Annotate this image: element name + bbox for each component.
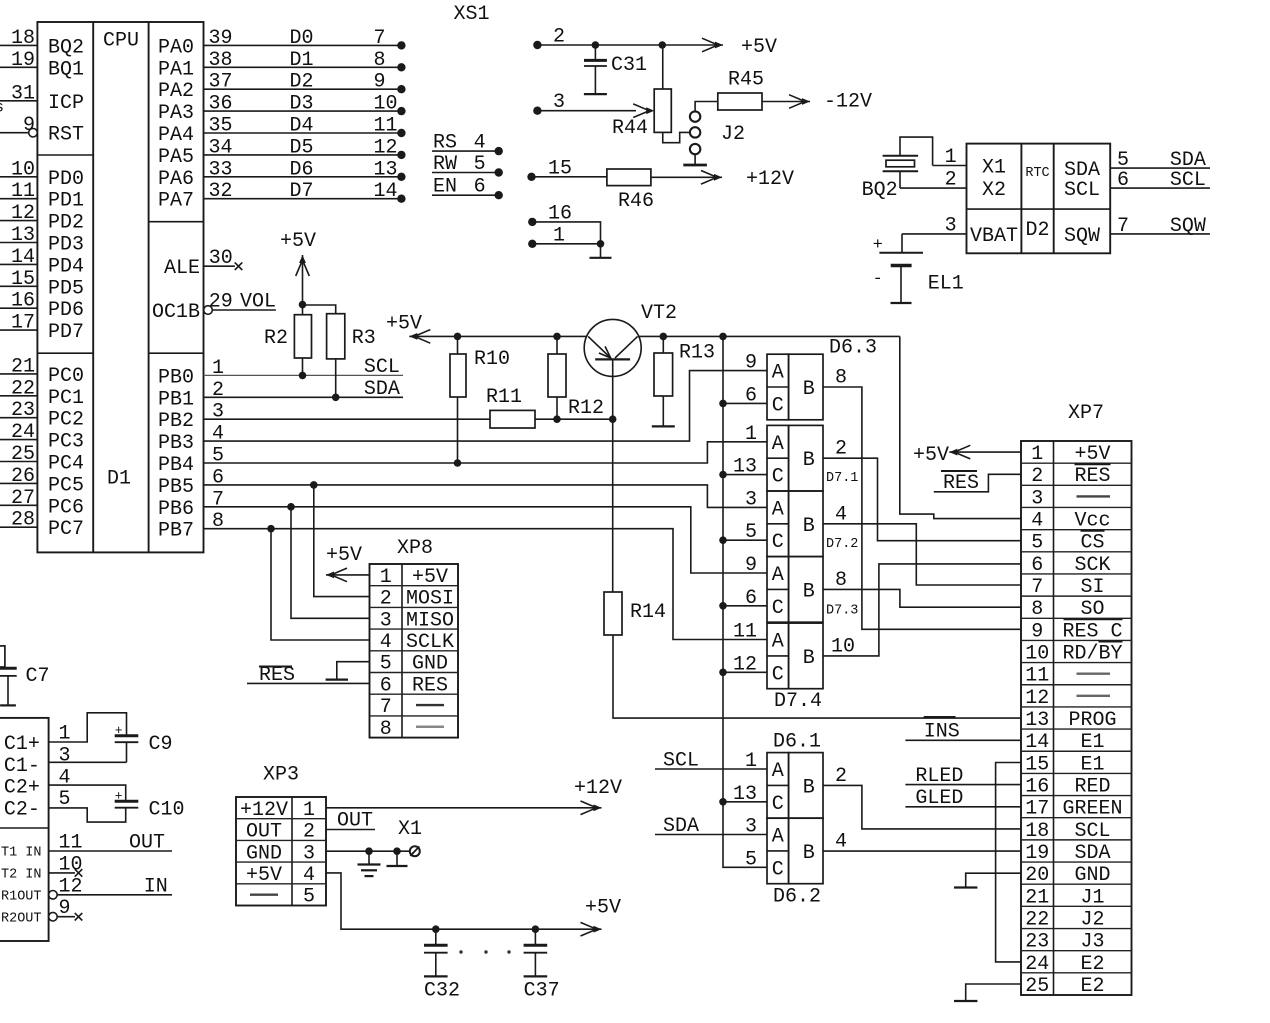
svg-text:PA1: PA1 [158, 58, 194, 81]
svg-text:13: 13 [374, 158, 398, 181]
svg-text:SCL: SCL [1074, 820, 1110, 843]
svg-text:B: B [803, 378, 815, 401]
svg-text:C1+: C1+ [4, 733, 40, 756]
CPU pin 31 ICP wire [0, 100, 37, 102]
svg-text:2: 2 [303, 821, 315, 844]
svg-text:C: C [772, 663, 784, 686]
svg-text:11: 11 [374, 115, 398, 138]
wire XP7 pin15 to pin24 strap [996, 763, 1021, 962]
svg-text:11: 11 [733, 621, 757, 644]
svg-text:6: 6 [380, 674, 392, 697]
svg-text:C: C [772, 466, 784, 489]
svg-text:R2OUT: R2OUT [1, 911, 42, 926]
svg-text:T1 IN: T1 IN [1, 846, 42, 861]
ground J2 bottom [694, 154, 696, 165]
D7.3 pin 8 output to XP7 SO [823, 589, 1021, 607]
svg-text:SCK: SCK [1074, 554, 1110, 577]
wire XP8 pin6 RES [247, 682, 370, 684]
svg-text:PD7: PD7 [48, 321, 84, 344]
ellipsis more capacitors [459, 950, 462, 953]
svg-text:3: 3 [1031, 487, 1043, 510]
svg-text:+5V: +5V [913, 444, 949, 467]
XS1 pin 6 EN wire [432, 194, 499, 196]
D7.4 pin 10 output to XP7 SCK [823, 564, 1021, 656]
svg-text:8: 8 [1031, 598, 1043, 621]
D6.1 pin 2 output to XP7 SCL [823, 785, 1021, 829]
resistor R46 [607, 169, 651, 186]
svg-text:SO: SO [1080, 598, 1104, 621]
svg-text:+: + [115, 723, 123, 738]
svg-text:1: 1 [1031, 443, 1043, 466]
svg-text:2: 2 [835, 438, 847, 461]
svg-text:PA2: PA2 [158, 80, 194, 103]
junction XP8 SCLK on PB7 [267, 525, 275, 533]
CPU pin 24 PC3 wire [0, 439, 37, 441]
svg-text:+5V: +5V [585, 897, 621, 920]
D7.2 pin 4 output to XP7 SI [823, 524, 1021, 585]
wire XP8 pin4 SCLK to PB7 [271, 529, 370, 640]
XP3 dash row5 [250, 893, 278, 895]
svg-text:s: s [0, 99, 4, 117]
junction C-bus top [719, 333, 727, 341]
junction R44 on +5V [659, 41, 667, 49]
svg-text:27: 27 [11, 487, 35, 510]
svg-text:16: 16 [548, 202, 572, 225]
CPU microcontroller D1 body [37, 22, 203, 552]
capacitor C10 [115, 800, 139, 803]
CPU pin 25 PC4 wire [0, 461, 37, 463]
svg-text:13: 13 [733, 783, 757, 806]
svg-text:35: 35 [209, 115, 233, 138]
XS1 pin 16 wire [528, 218, 536, 226]
capacitor C7 [0, 646, 5, 667]
svg-text:7: 7 [374, 27, 386, 50]
svg-text:E1: E1 [1080, 731, 1104, 754]
svg-text:5: 5 [745, 521, 757, 544]
svg-text:4: 4 [212, 423, 224, 446]
svg-text:16: 16 [11, 290, 35, 313]
svg-text:RW: RW [433, 153, 457, 176]
CPU pin 16 PD6 wire [0, 307, 37, 309]
svg-text:12: 12 [733, 653, 757, 676]
junction chassis ground X1 [393, 847, 401, 855]
svg-text:D7.3: D7.3 [826, 603, 858, 618]
XP8 dash row8 [416, 726, 444, 728]
svg-text:RTC: RTC [1025, 166, 1049, 181]
CPU pin 27 PC6 wire [0, 504, 37, 506]
svg-text:4: 4 [474, 132, 486, 155]
svg-text:PC3: PC3 [48, 431, 84, 454]
junction R10 bottom on PB4 [454, 459, 462, 467]
svg-text:SCL: SCL [663, 750, 699, 773]
svg-text:36: 36 [209, 93, 233, 116]
svg-text:8: 8 [835, 367, 847, 390]
CPU pin 14 PD4 wire [0, 263, 37, 265]
svg-text:9: 9 [1031, 620, 1043, 643]
svg-text:2: 2 [1031, 465, 1043, 488]
svg-text:C7: C7 [26, 665, 50, 688]
svg-text:3: 3 [745, 488, 757, 511]
D7.2 pin 5 wire [723, 539, 767, 541]
svg-text:6: 6 [745, 587, 757, 610]
svg-text:3: 3 [380, 609, 392, 632]
XP8 dash row7 [416, 704, 444, 706]
svg-text:SQW: SQW [1064, 225, 1100, 248]
resistor R14 [604, 592, 622, 635]
wire VT2 collector rail [638, 335, 900, 337]
svg-text:VT2: VT2 [641, 302, 677, 325]
svg-text:ICP: ICP [48, 92, 84, 115]
svg-text:+5V: +5V [280, 230, 316, 253]
optocoupler D6.2 [767, 818, 789, 884]
svg-text:14: 14 [11, 246, 35, 269]
D6.2 pin 3 wire SDA [655, 834, 767, 836]
svg-text:RS: RS [433, 132, 457, 155]
svg-text:PC4: PC4 [48, 453, 84, 476]
wire XP7 pin14 INS [905, 739, 1021, 741]
svg-text:OUT: OUT [246, 821, 282, 844]
interface IC body [0, 718, 49, 941]
CPU pin 22 PC1 wire [0, 395, 37, 397]
svg-text:PC1: PC1 [48, 387, 84, 410]
wire XP8 pin3 MISO to PB6 [291, 507, 370, 619]
svg-text:PB7: PB7 [158, 520, 194, 543]
svg-text:26: 26 [11, 465, 35, 488]
wire R14 to XP7 PROG [613, 635, 1021, 718]
svg-text:1: 1 [745, 423, 757, 446]
svg-text:3: 3 [553, 91, 565, 114]
svg-text:OUT: OUT [129, 832, 165, 855]
svg-text:6: 6 [1031, 554, 1043, 577]
trimmer R44 [654, 89, 671, 132]
crystal BQ2 [883, 155, 919, 157]
svg-text:2: 2 [835, 765, 847, 788]
svg-text:4: 4 [835, 503, 847, 526]
CPU pin 28 PC7 wire [0, 526, 37, 528]
svg-text:19: 19 [1025, 842, 1049, 865]
svg-text:+5V: +5V [386, 313, 422, 336]
optocoupler D6.1 [767, 753, 789, 819]
svg-text:24: 24 [11, 421, 35, 444]
svg-text:38: 38 [209, 49, 233, 72]
svg-text:12: 12 [374, 136, 398, 159]
svg-text:SCLK: SCLK [406, 631, 454, 654]
svg-text:29: 29 [209, 291, 233, 314]
CPU pin 18 BQ2 wire [0, 44, 37, 46]
svg-text:PA0: PA0 [158, 36, 194, 59]
svg-text:12: 12 [11, 202, 35, 225]
svg-text:MISO: MISO [406, 609, 454, 632]
wire PB7 to D7.4 pin 11 [204, 529, 768, 640]
svg-text:D2: D2 [1025, 219, 1049, 242]
svg-text:INS: INS [924, 721, 960, 744]
svg-text:4: 4 [303, 864, 315, 887]
wire C-bus VT2 collector to gate cathodes [723, 336, 767, 867]
svg-text:3: 3 [59, 744, 71, 767]
D6.1 pin 13 wire [723, 801, 767, 803]
svg-text:GND: GND [1074, 864, 1110, 887]
svg-text:J1: J1 [1080, 886, 1104, 909]
optocoupler D7.1 [767, 425, 789, 491]
resistor R45 [718, 93, 762, 110]
svg-text:XP3: XP3 [263, 764, 299, 787]
CPU pin 13 PD3 wire [0, 242, 37, 244]
junction earth ground X1 [365, 847, 373, 855]
svg-text:8: 8 [835, 569, 847, 592]
CPU pin 21 PC0 wire [0, 373, 37, 375]
svg-text:E2: E2 [1080, 975, 1104, 998]
svg-text:R46: R46 [618, 190, 654, 213]
junction R10 top [454, 333, 462, 341]
svg-text:8: 8 [374, 49, 386, 72]
D7.1 pin 13 wire [723, 474, 767, 476]
XP7 CS overline row5 [1081, 530, 1105, 532]
svg-text:33: 33 [209, 158, 233, 181]
svg-text:XP8: XP8 [397, 537, 433, 560]
svg-text:+5V: +5V [1074, 443, 1110, 466]
svg-text:BQ2: BQ2 [862, 179, 898, 202]
svg-text:5: 5 [380, 653, 392, 676]
svg-text:R44: R44 [612, 117, 648, 140]
XS1 pin 4 RS wire [432, 150, 499, 152]
XP7 dash row12 [1077, 695, 1111, 697]
optocoupler D7.4 [767, 623, 789, 689]
wire XP3 pin4 to +5V [326, 873, 584, 929]
XS1 pin 15 wire to R46 [527, 173, 535, 181]
capacitor C9 [115, 734, 139, 737]
junction C31 on +5V [592, 41, 600, 49]
connector XP3 body [236, 797, 326, 906]
svg-text:10: 10 [374, 93, 398, 116]
svg-text:23: 23 [1025, 931, 1049, 954]
ground XP8 pin5 [337, 662, 370, 680]
svg-text:23: 23 [11, 399, 35, 422]
junction C32 [432, 925, 440, 933]
svg-text:D7.1: D7.1 [826, 471, 858, 486]
junction R13 top [660, 333, 668, 341]
svg-text:E1: E1 [1080, 753, 1104, 776]
svg-text:RES: RES [943, 472, 979, 495]
svg-text:10: 10 [11, 158, 35, 181]
transistor VT2 [584, 319, 641, 376]
svg-text:39: 39 [209, 27, 233, 50]
svg-text:B: B [803, 647, 815, 670]
svg-text:GND: GND [412, 653, 448, 676]
D7.4 pin 12 wire [723, 671, 767, 673]
svg-text:A: A [772, 631, 784, 654]
svg-text:SI: SI [1080, 576, 1104, 599]
junction C37 [532, 925, 540, 933]
wire XP8 pin2 MOSI to PB5 [314, 485, 370, 597]
svg-text:37: 37 [209, 71, 233, 94]
svg-text:PB4: PB4 [158, 454, 194, 477]
svg-text:RED: RED [1074, 775, 1110, 798]
wire R45 to -12V [762, 101, 810, 103]
svg-text:VBAT: VBAT [970, 225, 1018, 248]
svg-text:+5V: +5V [246, 864, 282, 887]
svg-text:5: 5 [303, 886, 315, 909]
svg-text:19: 19 [11, 49, 35, 72]
svg-text:RLED: RLED [915, 765, 963, 788]
svg-text:PD2: PD2 [48, 212, 84, 235]
svg-text:VOL: VOL [240, 291, 276, 314]
svg-text:SCL: SCL [364, 356, 400, 379]
svg-text:SCL: SCL [1064, 179, 1100, 202]
svg-text:24: 24 [1025, 953, 1049, 976]
CPU pin 19 BQ1 wire [0, 66, 37, 68]
wire VT2 base down [612, 359, 614, 419]
svg-text:25: 25 [1025, 975, 1049, 998]
svg-text:D1: D1 [290, 49, 314, 72]
svg-text:T2 IN: T2 IN [1, 868, 42, 883]
resistor R2 [294, 315, 311, 358]
svg-text:28: 28 [11, 509, 35, 532]
junction XP8 MOSI on PB5 [310, 481, 318, 489]
wire PB2 to R11 and VT2 base [204, 418, 491, 420]
svg-text:3: 3 [212, 401, 224, 424]
svg-text:CS: CS [1080, 532, 1104, 555]
svg-text:R13: R13 [679, 342, 715, 365]
svg-text:CPU: CPU [103, 30, 139, 53]
svg-text:MOSI: MOSI [406, 588, 454, 611]
svg-text:B: B [803, 515, 815, 538]
svg-text:17: 17 [11, 312, 35, 335]
svg-text:R3: R3 [352, 327, 376, 350]
ground XP7 pin20 [966, 873, 1021, 887]
svg-text:D2: D2 [290, 71, 314, 94]
svg-text:R45: R45 [728, 69, 764, 92]
wire +5V to R3 top [303, 305, 336, 314]
wire PB3 to D6.3 pin 9 [204, 371, 768, 442]
svg-text:SDA: SDA [364, 378, 400, 401]
svg-text:15: 15 [11, 268, 35, 291]
svg-text:+12V: +12V [574, 777, 622, 800]
svg-text:SDA: SDA [663, 815, 699, 838]
svg-text:1: 1 [212, 357, 224, 380]
svg-text:11: 11 [11, 180, 35, 203]
svg-text:OC1B: OC1B [152, 301, 200, 324]
svg-text:PC0: PC0 [48, 365, 84, 388]
svg-text:+: + [873, 236, 883, 255]
svg-text:RST: RST [48, 124, 84, 147]
junction R3 to SDA [332, 394, 340, 402]
svg-text:13: 13 [1025, 709, 1049, 732]
svg-text:7: 7 [212, 488, 224, 511]
resistor R12 [548, 354, 566, 397]
svg-text:C: C [772, 597, 784, 620]
svg-text:3: 3 [303, 842, 315, 865]
svg-text:PC6: PC6 [48, 496, 84, 519]
svg-text:BQ1: BQ1 [48, 58, 84, 81]
svg-text:Vcc: Vcc [1074, 510, 1110, 533]
svg-text:21: 21 [11, 355, 35, 378]
svg-text:SQW: SQW [1170, 215, 1206, 238]
ground XP7 pin25 [966, 984, 1021, 1001]
svg-text:B: B [803, 776, 815, 799]
svg-text:+: + [115, 789, 123, 804]
svg-text:D4: D4 [290, 115, 314, 138]
chassis ground symbol [396, 851, 398, 866]
svg-text:XS1: XS1 [454, 3, 490, 26]
svg-text:+12V: +12V [746, 168, 794, 191]
svg-text:5: 5 [212, 445, 224, 468]
svg-text:-12V: -12V [824, 91, 872, 114]
svg-text:PC5: PC5 [48, 474, 84, 497]
svg-text:PD5: PD5 [48, 277, 84, 300]
svg-text:XP7: XP7 [1068, 402, 1104, 425]
svg-text:9: 9 [745, 554, 757, 577]
svg-text:5: 5 [474, 153, 486, 176]
svg-text:18: 18 [1025, 820, 1049, 843]
svg-text:PD0: PD0 [48, 168, 84, 191]
XS1 pin 1 wire [528, 240, 536, 248]
junction R2 to SCL [299, 372, 307, 380]
earth ground symbol [368, 851, 370, 864]
junction XS1 pin16 pin1 [597, 240, 605, 248]
svg-text:1: 1 [303, 799, 315, 822]
svg-text:A: A [772, 760, 784, 783]
svg-text:PB3: PB3 [158, 432, 194, 455]
svg-text:4: 4 [835, 831, 847, 854]
svg-text:PA5: PA5 [158, 146, 194, 169]
svg-text:30: 30 [209, 247, 233, 270]
svg-text:C31: C31 [611, 54, 647, 77]
CPU pin 26 PC5 wire [0, 482, 37, 484]
junction XP8 MISO on PB6 [287, 503, 295, 511]
ground XS1 pin1 [600, 244, 602, 258]
svg-text:C2+: C2+ [4, 777, 40, 800]
svg-text:+5V: +5V [741, 36, 777, 59]
XP7 BY overline row10 [1099, 641, 1123, 643]
optocoupler D6.3 [767, 354, 789, 420]
wire J2 to R45 [695, 102, 718, 113]
svg-text:-: - [873, 270, 883, 289]
XP7 pin13 INS overline [924, 716, 956, 719]
jumper J2 [690, 111, 700, 121]
svg-text:J3: J3 [1080, 931, 1104, 954]
svg-text:15: 15 [1025, 753, 1049, 776]
svg-text:D7.2: D7.2 [826, 537, 858, 552]
svg-text:X1: X1 [398, 818, 422, 841]
svg-text:22: 22 [11, 377, 35, 400]
svg-text:10: 10 [1025, 643, 1049, 666]
svg-text:D3: D3 [290, 93, 314, 116]
wire PB0 net SCL [204, 374, 404, 376]
wire R46 to +12V [651, 176, 722, 178]
svg-text:J2: J2 [721, 123, 745, 146]
svg-text:PB0: PB0 [158, 366, 194, 389]
svg-text:A: A [772, 433, 784, 456]
wire PB6 to D7.3 pin 9 [204, 507, 768, 573]
svg-text:9: 9 [745, 352, 757, 375]
svg-text:R1OUT: R1OUT [1, 890, 42, 905]
svg-text:D6.3: D6.3 [829, 337, 877, 360]
svg-text:10: 10 [831, 635, 855, 658]
battery EL1 [879, 252, 923, 254]
svg-text:C9: C9 [149, 733, 173, 756]
svg-text:X2: X2 [982, 179, 1006, 202]
svg-text:ALE: ALE [164, 257, 200, 280]
svg-text:+5V: +5V [326, 544, 362, 567]
svg-text:1: 1 [745, 750, 757, 773]
svg-text:12: 12 [1025, 687, 1049, 710]
svg-text:C32: C32 [424, 980, 460, 1003]
wire PB4 to D7.1 pin 1 [204, 442, 768, 463]
svg-text:D7.4: D7.4 [774, 690, 822, 713]
svg-text:20: 20 [1025, 864, 1049, 887]
optocoupler D7.3 [767, 557, 789, 623]
svg-text:RES: RES [1074, 465, 1110, 488]
